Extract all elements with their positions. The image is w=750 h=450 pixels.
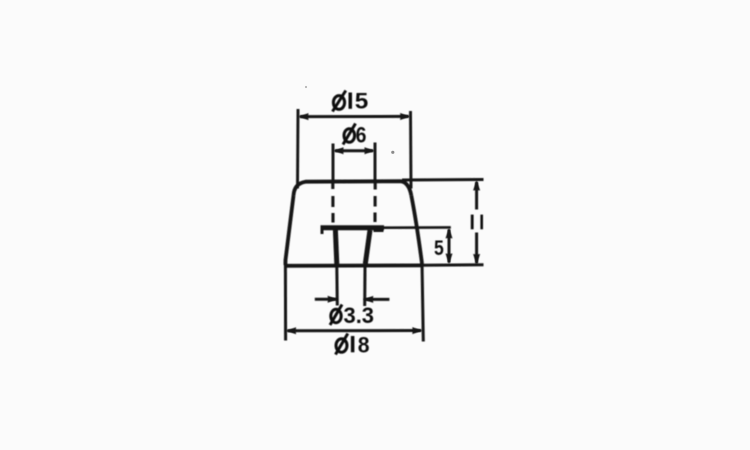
svg-text:8: 8 bbox=[358, 332, 370, 357]
svg-text:5: 5 bbox=[434, 236, 444, 260]
svg-text:6: 6 bbox=[356, 123, 367, 148]
svg-text:3.3: 3.3 bbox=[344, 303, 375, 328]
svg-text:5: 5 bbox=[355, 89, 369, 114]
